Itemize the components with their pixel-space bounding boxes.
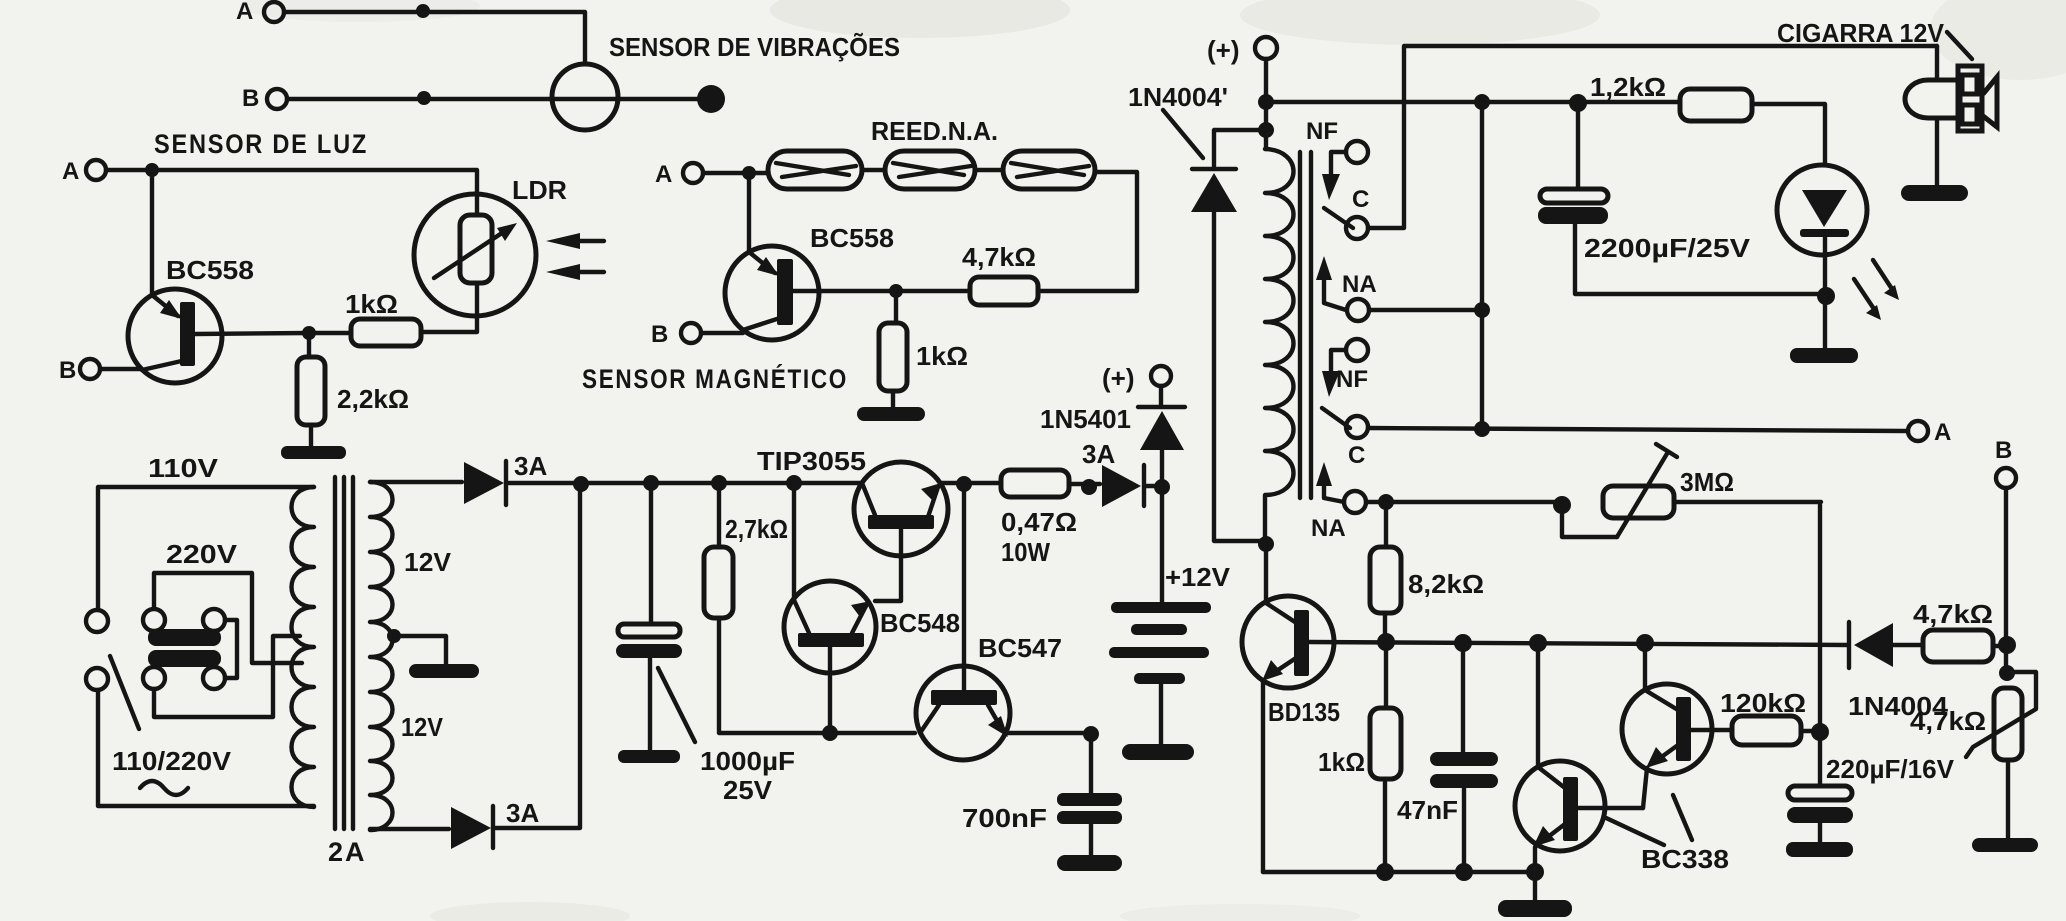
svg-text:1N4004': 1N4004' (1128, 82, 1228, 112)
svg-text:1000µF: 1000µF (700, 746, 795, 776)
svg-text:3A: 3A (514, 451, 547, 481)
svg-text:SENSOR DE VIBRAÇÕES: SENSOR DE VIBRAÇÕES (609, 32, 900, 62)
svg-text:B: B (242, 85, 259, 112)
svg-text:3MΩ: 3MΩ (1680, 467, 1734, 497)
svg-text:NA: NA (1311, 515, 1346, 542)
svg-text:BD135: BD135 (1268, 697, 1340, 727)
svg-text:+12V: +12V (1165, 562, 1231, 592)
svg-text:4,7kΩ: 4,7kΩ (962, 242, 1036, 272)
svg-text:1kΩ: 1kΩ (345, 289, 398, 319)
svg-text:10W: 10W (1001, 537, 1050, 567)
svg-text:A: A (236, 0, 253, 25)
svg-text:B: B (1995, 437, 2012, 464)
svg-text:SENSOR DE LUZ: SENSOR DE LUZ (154, 129, 368, 159)
svg-text:3A: 3A (506, 798, 539, 828)
svg-text:25V: 25V (723, 775, 773, 805)
svg-text:(+): (+) (1102, 363, 1135, 393)
svg-text:C: C (1348, 442, 1365, 469)
svg-text:(+): (+) (1207, 35, 1240, 65)
svg-text:1kΩ: 1kΩ (1318, 747, 1365, 777)
svg-text:BC338: BC338 (1641, 844, 1729, 874)
svg-text:110/220V: 110/220V (112, 746, 232, 776)
svg-text:1,2kΩ: 1,2kΩ (1590, 72, 1666, 102)
svg-text:B: B (59, 357, 76, 384)
svg-text:C: C (1352, 186, 1369, 213)
svg-text:NF: NF (1306, 118, 1338, 145)
svg-text:REED.N.A.: REED.N.A. (871, 116, 998, 146)
svg-text:1kΩ: 1kΩ (916, 341, 968, 371)
svg-text:12V: 12V (401, 712, 444, 742)
svg-text:A: A (655, 161, 672, 188)
svg-text:8,2kΩ: 8,2kΩ (1408, 569, 1484, 599)
svg-text:BC558: BC558 (810, 223, 894, 253)
svg-text:A: A (62, 158, 79, 185)
svg-text:BC558: BC558 (166, 255, 254, 285)
svg-text:0,47Ω: 0,47Ω (1001, 507, 1077, 537)
svg-text:1N5401: 1N5401 (1040, 404, 1131, 434)
svg-text:12V: 12V (404, 547, 452, 577)
svg-text:BC547: BC547 (978, 633, 1062, 663)
svg-text:NF: NF (1336, 366, 1368, 393)
svg-text:700nF: 700nF (962, 803, 1047, 833)
svg-text:CIGARRA 12V: CIGARRA 12V (1777, 18, 1945, 48)
svg-text:4,7kΩ: 4,7kΩ (1910, 706, 1986, 736)
svg-text:LDR: LDR (512, 175, 567, 205)
svg-text:BC548: BC548 (880, 608, 960, 638)
svg-text:2200µF/25V: 2200µF/25V (1584, 233, 1751, 263)
svg-text:2,2kΩ: 2,2kΩ (337, 384, 409, 414)
svg-text:120kΩ: 120kΩ (1720, 688, 1806, 718)
svg-text:110V: 110V (148, 453, 219, 483)
svg-text:2,7kΩ: 2,7kΩ (725, 514, 788, 544)
svg-text:NA: NA (1342, 271, 1377, 298)
svg-text:4,7kΩ: 4,7kΩ (1913, 599, 1993, 629)
svg-text:3A: 3A (1082, 439, 1115, 469)
svg-text:220V: 220V (166, 539, 238, 569)
svg-text:2A: 2A (328, 837, 367, 867)
svg-text:SENSOR MAGNÉTICO: SENSOR MAGNÉTICO (582, 363, 848, 394)
svg-text:220µF/16V: 220µF/16V (1826, 754, 1955, 784)
svg-text:B: B (651, 321, 668, 348)
svg-text:47nF: 47nF (1397, 795, 1458, 825)
svg-text:A: A (1934, 419, 1951, 446)
svg-text:TIP3055: TIP3055 (757, 446, 866, 476)
